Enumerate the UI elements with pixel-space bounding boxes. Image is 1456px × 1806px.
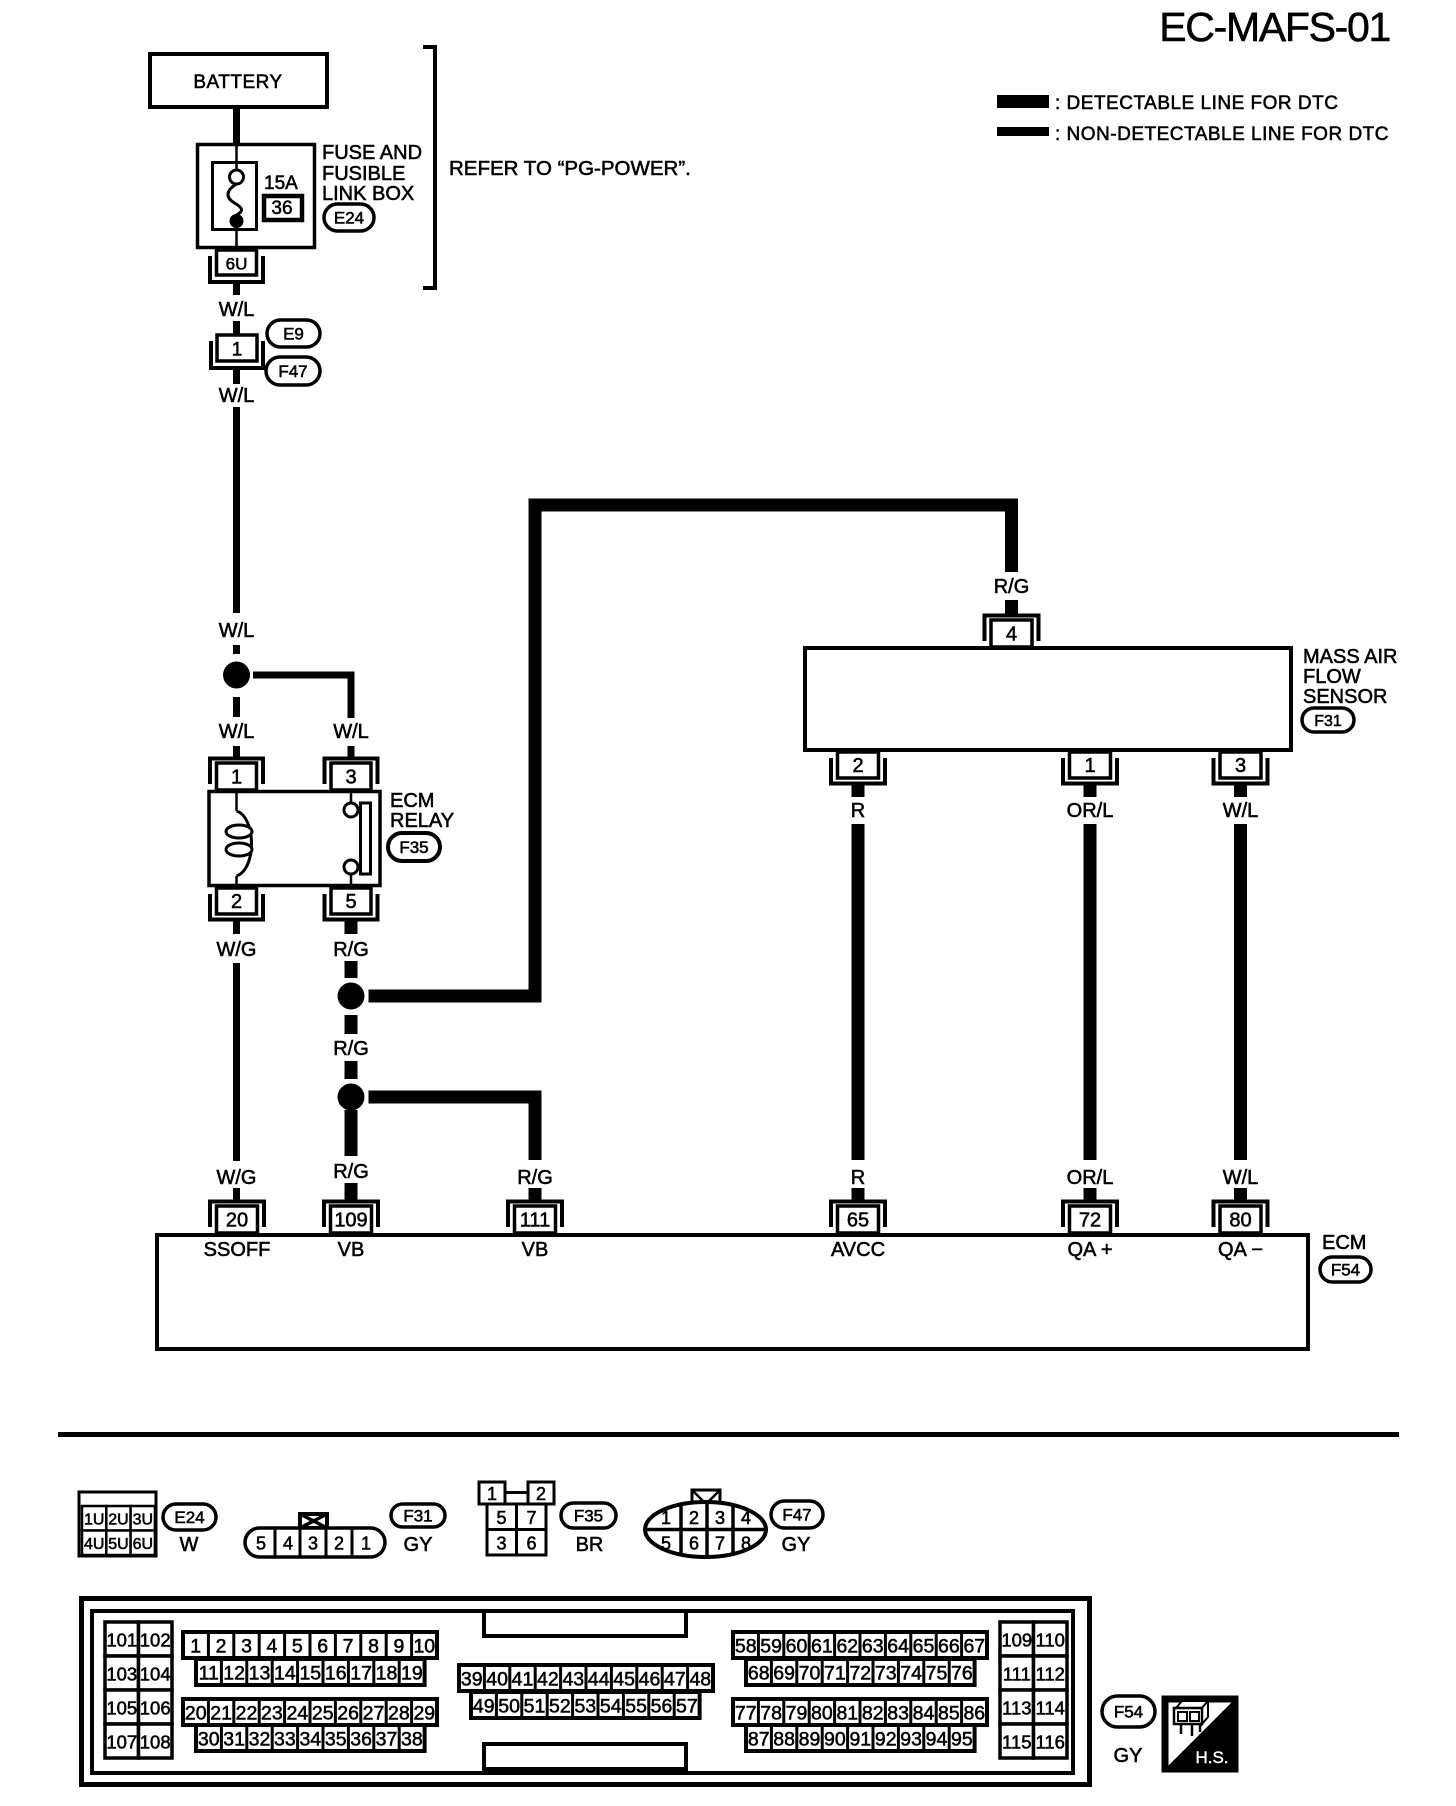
- wire OR/L stub below MAFS: [1084, 784, 1097, 797]
- svg-text:29: 29: [413, 1703, 435, 1725]
- svg-text:W/L: W/L: [219, 721, 255, 743]
- relay switch blade: [361, 803, 371, 874]
- svg-text:90: 90: [824, 1729, 846, 1751]
- svg-text:85: 85: [938, 1703, 960, 1725]
- wire R/G dash: [345, 961, 358, 978]
- svg-text:1U: 1U: [84, 1512, 104, 1529]
- svg-text:54: 54: [600, 1696, 622, 1718]
- svg-text:111: 111: [1003, 1664, 1031, 1685]
- svg-text:50: 50: [498, 1696, 520, 1718]
- svg-text:R/G: R/G: [517, 1167, 553, 1189]
- H.S. harness symbol: [1165, 1699, 1235, 1769]
- svg-text:: DETECTABLE LINE FOR DTC: : DETECTABLE LINE FOR DTC: [1055, 93, 1338, 114]
- svg-text:3: 3: [308, 1534, 318, 1554]
- svg-text:5: 5: [292, 1636, 303, 1658]
- svg-text:12: 12: [223, 1663, 245, 1685]
- svg-text:108: 108: [140, 1732, 171, 1753]
- svg-text:51: 51: [524, 1696, 546, 1718]
- svg-text:62: 62: [836, 1636, 858, 1658]
- wire R/G thick branch to MAFS pin 4: [369, 505, 1012, 996]
- svg-text:69: 69: [773, 1663, 795, 1685]
- ECM connector pin row 30-38: [196, 1725, 425, 1751]
- svg-text:70: 70: [799, 1663, 821, 1685]
- svg-text:W/G: W/G: [217, 1167, 257, 1189]
- svg-text:W/L: W/L: [333, 721, 369, 743]
- svg-text:58: 58: [735, 1636, 757, 1658]
- svg-text:2: 2: [536, 1484, 546, 1504]
- ECM connector pin row 1-10: [183, 1632, 437, 1658]
- svg-text:3: 3: [241, 1636, 252, 1658]
- svg-text:25: 25: [312, 1703, 334, 1725]
- svg-text:72: 72: [849, 1663, 871, 1685]
- relay label ECM RELAY: [390, 790, 454, 832]
- ECM connector left grid pins 101-108: [105, 1622, 172, 1758]
- svg-text:57: 57: [676, 1696, 698, 1718]
- svg-text:60: 60: [786, 1636, 808, 1658]
- connector oval F35: [388, 833, 440, 861]
- svg-text:11: 11: [199, 1663, 219, 1685]
- fuse number 36 box: [264, 196, 302, 220]
- svg-text:F31: F31: [1314, 713, 1342, 730]
- connector oval E24: [324, 204, 374, 231]
- wire R/G thick branch to ECM pin 111: [369, 1097, 536, 1160]
- svg-text:28: 28: [388, 1703, 410, 1725]
- fuse 36 15A element: [228, 145, 244, 249]
- connector view F31 (5 4 3 2 1): [245, 1514, 385, 1557]
- svg-text:43: 43: [562, 1669, 584, 1691]
- svg-text:EC-MAFS-01: EC-MAFS-01: [1159, 4, 1390, 50]
- svg-text:107: 107: [106, 1732, 137, 1753]
- svg-text:F54: F54: [1114, 1703, 1143, 1722]
- wire OR/L stub above ECM pin: [1084, 1188, 1097, 1200]
- svg-text:W: W: [180, 1534, 199, 1556]
- svg-text:14: 14: [274, 1663, 296, 1685]
- svg-text:4: 4: [283, 1534, 293, 1554]
- svg-text:47: 47: [664, 1669, 686, 1691]
- svg-text:13: 13: [249, 1663, 271, 1685]
- wire R stub above ECM pin: [852, 1188, 865, 1200]
- fuse box label FUSE AND FUSIBLE LINK BOX: [322, 142, 422, 205]
- wire R/G dash below upper junction: [345, 1015, 358, 1034]
- svg-text:19: 19: [401, 1663, 423, 1685]
- svg-text:VB: VB: [522, 1239, 549, 1261]
- connector oval F47 (view): [771, 1501, 823, 1528]
- svg-text:6: 6: [689, 1534, 699, 1554]
- svg-text:6U: 6U: [226, 255, 248, 274]
- svg-text:40: 40: [486, 1669, 508, 1691]
- ECM connector pin row 87-95: [746, 1725, 975, 1751]
- ECM body F54: [157, 1235, 1308, 1349]
- svg-text:SSOFF: SSOFF: [204, 1239, 271, 1261]
- svg-text:R/G: R/G: [333, 939, 369, 961]
- ECM connector pin row 39-48: [459, 1665, 713, 1691]
- svg-text:88: 88: [773, 1729, 795, 1751]
- svg-text:W/L: W/L: [219, 385, 255, 407]
- svg-text:W/L: W/L: [219, 620, 255, 642]
- svg-text:116: 116: [1035, 1732, 1065, 1753]
- svg-text:9: 9: [393, 1636, 404, 1658]
- svg-text:4U: 4U: [84, 1536, 104, 1553]
- svg-text:63: 63: [862, 1636, 884, 1658]
- wire W/L dash above junction: [233, 645, 240, 654]
- fuse and fusible link box E24: [198, 145, 315, 248]
- svg-text:3: 3: [345, 767, 356, 789]
- battery: [150, 54, 327, 107]
- svg-text:5U: 5U: [108, 1536, 128, 1553]
- svg-text:101: 101: [106, 1630, 137, 1651]
- relay coil: [226, 790, 252, 889]
- wire R/G stub above ECM pin 109: [345, 1183, 358, 1200]
- svg-text:77: 77: [735, 1703, 757, 1725]
- svg-text:103: 103: [106, 1664, 137, 1685]
- relay switch contacts: [344, 790, 371, 889]
- svg-text:32: 32: [249, 1729, 271, 1751]
- svg-text:53: 53: [574, 1696, 596, 1718]
- svg-text:36: 36: [271, 198, 292, 219]
- relay pin 3: [325, 759, 378, 791]
- connector oval F54 (view): [1102, 1696, 1155, 1727]
- svg-text:83: 83: [887, 1703, 909, 1725]
- svg-text:71: 71: [824, 1663, 846, 1685]
- svg-text:64: 64: [887, 1636, 909, 1658]
- ECM pin 111: [508, 1202, 562, 1234]
- connector view F35: [479, 1482, 554, 1555]
- svg-text:74: 74: [900, 1663, 922, 1685]
- svg-text:23: 23: [261, 1703, 283, 1725]
- svg-text:2: 2: [334, 1534, 344, 1554]
- svg-text:F47: F47: [782, 1506, 811, 1525]
- svg-text:F35: F35: [399, 838, 428, 857]
- svg-text:72: 72: [1079, 1210, 1101, 1232]
- separator line: [58, 1432, 1399, 1437]
- svg-text:86: 86: [963, 1703, 985, 1725]
- relay pin 5: [325, 888, 378, 920]
- svg-text:1: 1: [232, 340, 243, 361]
- svg-text:78: 78: [760, 1703, 782, 1725]
- svg-text:AVCC: AVCC: [831, 1239, 885, 1261]
- svg-text:16: 16: [325, 1663, 347, 1685]
- wire W/L stub above relay pin 1: [233, 746, 240, 759]
- svg-text:30: 30: [198, 1729, 220, 1751]
- svg-text:21: 21: [210, 1703, 232, 1725]
- svg-text:80: 80: [811, 1703, 833, 1725]
- svg-text:38: 38: [401, 1729, 423, 1751]
- svg-text:4: 4: [1006, 624, 1017, 646]
- junction dot R/G upper: [338, 983, 365, 1010]
- svg-text:6: 6: [317, 1636, 328, 1658]
- svg-text:1: 1: [361, 1534, 371, 1554]
- svg-text:6U: 6U: [133, 1536, 153, 1553]
- svg-text:2: 2: [852, 755, 863, 777]
- svg-text:49: 49: [473, 1696, 495, 1718]
- svg-text:87: 87: [748, 1729, 770, 1751]
- svg-text:2: 2: [689, 1508, 699, 1528]
- svg-text:F35: F35: [574, 1507, 603, 1526]
- svg-text:GY: GY: [1114, 1745, 1143, 1767]
- wire R/G dash: [345, 1061, 358, 1079]
- svg-text:SENSOR: SENSOR: [1303, 686, 1387, 708]
- connector view F47: [645, 1490, 766, 1557]
- wire W/L stub above connector 1: [233, 321, 240, 335]
- svg-text:BATTERY: BATTERY: [193, 72, 282, 93]
- svg-text:66: 66: [938, 1636, 960, 1658]
- svg-text:4: 4: [266, 1636, 277, 1658]
- svg-text:F31: F31: [403, 1507, 432, 1526]
- connector oval F47: [266, 357, 320, 385]
- svg-text:68: 68: [748, 1663, 770, 1685]
- svg-text:W/G: W/G: [217, 939, 257, 961]
- junction dot W/L: [223, 662, 250, 689]
- svg-text:7: 7: [715, 1534, 725, 1554]
- svg-text:94: 94: [926, 1729, 948, 1751]
- svg-text:: NON-DETECTABLE LINE FOR DTC: : NON-DETECTABLE LINE FOR DTC: [1055, 124, 1389, 145]
- svg-text:VB: VB: [338, 1239, 365, 1261]
- svg-text:104: 104: [140, 1664, 171, 1685]
- svg-text:55: 55: [625, 1696, 647, 1718]
- svg-text:112: 112: [1035, 1664, 1065, 1685]
- svg-text:20: 20: [226, 1210, 248, 1232]
- svg-text:7: 7: [343, 1636, 354, 1658]
- svg-text:36: 36: [350, 1729, 372, 1751]
- svg-text:ECM: ECM: [1322, 1232, 1366, 1254]
- ECM connector pin row 77-86: [733, 1699, 987, 1725]
- svg-text:42: 42: [537, 1669, 559, 1691]
- svg-text:3U: 3U: [133, 1512, 153, 1529]
- svg-text:R/G: R/G: [333, 1161, 369, 1183]
- svg-text:MASS AIR: MASS AIR: [1303, 646, 1397, 668]
- svg-text:20: 20: [185, 1703, 207, 1725]
- svg-text:W/L: W/L: [219, 299, 255, 321]
- wire R stub below MAFS: [852, 784, 865, 797]
- svg-text:110: 110: [1035, 1630, 1065, 1651]
- legend detectable line sample: [997, 95, 1049, 108]
- bracket refer to PG-POWER: [423, 47, 435, 288]
- wire R long vertical run: [852, 824, 865, 1160]
- svg-text:92: 92: [875, 1729, 897, 1751]
- ECM connector block inner frame: [92, 1611, 1073, 1773]
- svg-text:95: 95: [951, 1729, 973, 1751]
- relay pin 1: [210, 759, 263, 791]
- svg-text:FUSIBLE: FUSIBLE: [322, 163, 405, 185]
- wire W/L stub below MAFS: [1234, 784, 1247, 797]
- svg-text:BR: BR: [576, 1534, 604, 1556]
- ECM relay body F35: [209, 792, 380, 886]
- svg-text:1: 1: [231, 767, 242, 789]
- relay pin 2: [210, 888, 263, 920]
- svg-text:80: 80: [1229, 1210, 1251, 1232]
- svg-text:1: 1: [190, 1636, 201, 1658]
- svg-text:67: 67: [963, 1636, 985, 1658]
- svg-text:QA −: QA −: [1218, 1239, 1263, 1261]
- svg-text:79: 79: [786, 1703, 808, 1725]
- connector oval F54: [1320, 1257, 1371, 1282]
- ECM pin 65: [831, 1202, 885, 1234]
- svg-text:84: 84: [913, 1703, 935, 1725]
- svg-text:35: 35: [325, 1729, 347, 1751]
- svg-text:73: 73: [875, 1663, 897, 1685]
- svg-text:6: 6: [526, 1534, 536, 1554]
- ECM connector pin row 11-19: [196, 1659, 425, 1685]
- svg-text:3: 3: [1235, 755, 1246, 777]
- wire R/G segment below lower junction: [345, 1110, 358, 1156]
- svg-text:56: 56: [651, 1696, 673, 1718]
- connector oval E9: [267, 320, 320, 347]
- svg-text:93: 93: [900, 1729, 922, 1751]
- svg-text:2: 2: [231, 891, 242, 913]
- connector pin 6U: [210, 250, 263, 282]
- svg-text:81: 81: [836, 1703, 858, 1725]
- svg-text:E24: E24: [174, 1508, 204, 1527]
- svg-text:3: 3: [496, 1534, 506, 1554]
- mass air flow sensor body F31: [805, 648, 1291, 750]
- mass air flow sensor pin 4: [985, 616, 1039, 648]
- connector oval E24 (view): [163, 1504, 216, 1530]
- svg-text:82: 82: [862, 1703, 884, 1725]
- wire W/G stub above ECM pin 20: [233, 1188, 240, 1200]
- svg-text:FUSE AND: FUSE AND: [322, 142, 422, 164]
- svg-text:W/L: W/L: [1223, 1167, 1259, 1189]
- wire R/G stub below relay pin 5: [345, 920, 358, 935]
- svg-text:QA +: QA +: [1067, 1239, 1112, 1261]
- svg-text:2: 2: [216, 1636, 227, 1658]
- svg-text:114: 114: [1035, 1698, 1065, 1719]
- svg-text:W/L: W/L: [1223, 800, 1259, 822]
- wire W/L long vertical run: [233, 407, 240, 613]
- svg-text:RELAY: RELAY: [390, 810, 454, 832]
- svg-text:2U: 2U: [108, 1512, 128, 1529]
- svg-text:15A: 15A: [264, 173, 298, 194]
- wire W/L branch to relay pin 3: [253, 675, 351, 718]
- svg-text:1: 1: [487, 1484, 497, 1504]
- ECM pin 109: [324, 1202, 378, 1234]
- svg-text:65: 65: [847, 1210, 869, 1232]
- svg-text:18: 18: [376, 1663, 398, 1685]
- ECM pin 20: [210, 1202, 264, 1234]
- svg-text:OR/L: OR/L: [1067, 800, 1114, 822]
- svg-text:109: 109: [1001, 1630, 1032, 1651]
- svg-text:44: 44: [588, 1669, 610, 1691]
- svg-text:F47: F47: [278, 362, 307, 381]
- junction dot R/G lower: [338, 1084, 365, 1111]
- svg-text:59: 59: [760, 1636, 782, 1658]
- svg-text:5: 5: [661, 1534, 671, 1554]
- svg-text:5: 5: [345, 891, 356, 913]
- svg-text:113: 113: [1002, 1698, 1032, 1719]
- ECM pin 80: [1214, 1202, 1268, 1234]
- svg-text:26: 26: [337, 1703, 359, 1725]
- wire W/L dash below junction: [233, 697, 240, 717]
- svg-text:34: 34: [299, 1729, 321, 1751]
- MAFS pin 2: [831, 752, 885, 784]
- svg-text:89: 89: [799, 1729, 821, 1751]
- svg-text:41: 41: [512, 1669, 534, 1691]
- svg-text:48: 48: [689, 1669, 711, 1691]
- wire R/G stub above ECM pin 111: [529, 1188, 542, 1200]
- wire R/G stub above MAFS pin 4: [1005, 600, 1018, 614]
- svg-text:1: 1: [661, 1508, 671, 1528]
- ECM connector block outer frame: [82, 1599, 1090, 1785]
- wire W/G stub below relay pin 2: [233, 920, 240, 935]
- svg-text:31: 31: [223, 1729, 245, 1751]
- svg-text:REFER TO “PG-POWER”.: REFER TO “PG-POWER”.: [449, 157, 691, 180]
- svg-text:GY: GY: [404, 1534, 433, 1556]
- MAFS pin 1: [1063, 752, 1117, 784]
- wire W/L stub above relay pin 3: [348, 746, 355, 759]
- svg-text:E24: E24: [334, 209, 364, 228]
- svg-text:75: 75: [926, 1663, 948, 1685]
- connector oval F35 (view): [561, 1503, 616, 1528]
- svg-text:5: 5: [256, 1534, 266, 1554]
- wire W/L battery to fuse box: [233, 109, 240, 146]
- ECM connector top notch: [484, 1611, 686, 1636]
- svg-text:OR/L: OR/L: [1067, 1167, 1114, 1189]
- svg-text:37: 37: [376, 1729, 398, 1751]
- svg-text:R: R: [851, 1167, 865, 1189]
- svg-text:102: 102: [140, 1630, 171, 1651]
- svg-text:GY: GY: [782, 1534, 811, 1556]
- wire W/L stub below connector 1: [233, 368, 240, 384]
- svg-text:7: 7: [526, 1508, 536, 1528]
- svg-text:17: 17: [350, 1663, 372, 1685]
- svg-text:39: 39: [461, 1669, 483, 1691]
- svg-text:109: 109: [334, 1210, 367, 1232]
- ECM connector pin row 20-29: [183, 1699, 437, 1725]
- svg-text:R: R: [851, 800, 865, 822]
- ECM connector bottom notch: [484, 1744, 686, 1769]
- svg-text:E9: E9: [283, 325, 304, 344]
- MAFS label MASS AIR FLOW SENSOR: [1303, 646, 1397, 708]
- connector oval F31 (view): [391, 1504, 445, 1527]
- svg-text:45: 45: [613, 1669, 635, 1691]
- svg-text:R/G: R/G: [994, 576, 1030, 598]
- svg-text:27: 27: [363, 1703, 385, 1725]
- svg-text:F54: F54: [1331, 1261, 1360, 1280]
- ECM connector pin row 58-67: [733, 1632, 987, 1658]
- ECM connector right grid pins 109-116: [1000, 1622, 1067, 1758]
- svg-text:R/G: R/G: [333, 1038, 369, 1060]
- svg-text:115: 115: [1002, 1732, 1032, 1753]
- svg-text:91: 91: [849, 1729, 871, 1751]
- svg-text:5: 5: [496, 1508, 506, 1528]
- connector pin 1 (E9/F47): [211, 335, 263, 368]
- svg-text:33: 33: [274, 1729, 296, 1751]
- wire W/L stub above ECM pin: [1234, 1188, 1247, 1200]
- svg-text:22: 22: [236, 1703, 258, 1725]
- svg-text:52: 52: [549, 1696, 571, 1718]
- svg-text:106: 106: [140, 1698, 171, 1719]
- connector oval F31: [1302, 708, 1354, 732]
- wire W/L 6U to connector 1 (upper stub): [233, 282, 240, 295]
- svg-text:8: 8: [741, 1534, 751, 1554]
- svg-text:1: 1: [1084, 755, 1095, 777]
- svg-text:4: 4: [741, 1508, 751, 1528]
- wire W/L long vertical run: [1234, 824, 1247, 1160]
- svg-text:105: 105: [106, 1698, 137, 1719]
- svg-text:FLOW: FLOW: [1303, 666, 1361, 688]
- svg-text:LINK BOX: LINK BOX: [322, 183, 414, 205]
- svg-text:61: 61: [811, 1636, 833, 1658]
- svg-text:ECM: ECM: [390, 790, 434, 812]
- MAFS pin 3: [1214, 752, 1268, 784]
- wire W/G long vertical run: [233, 963, 240, 1161]
- svg-text:76: 76: [951, 1663, 973, 1685]
- ECM pin 72: [1063, 1202, 1117, 1234]
- wire OR/L long vertical run: [1084, 824, 1097, 1160]
- svg-text:111: 111: [520, 1210, 550, 1232]
- ECM connector pin row 68-76: [746, 1659, 975, 1685]
- svg-text:46: 46: [639, 1669, 661, 1691]
- legend non-detectable line sample: [997, 127, 1049, 136]
